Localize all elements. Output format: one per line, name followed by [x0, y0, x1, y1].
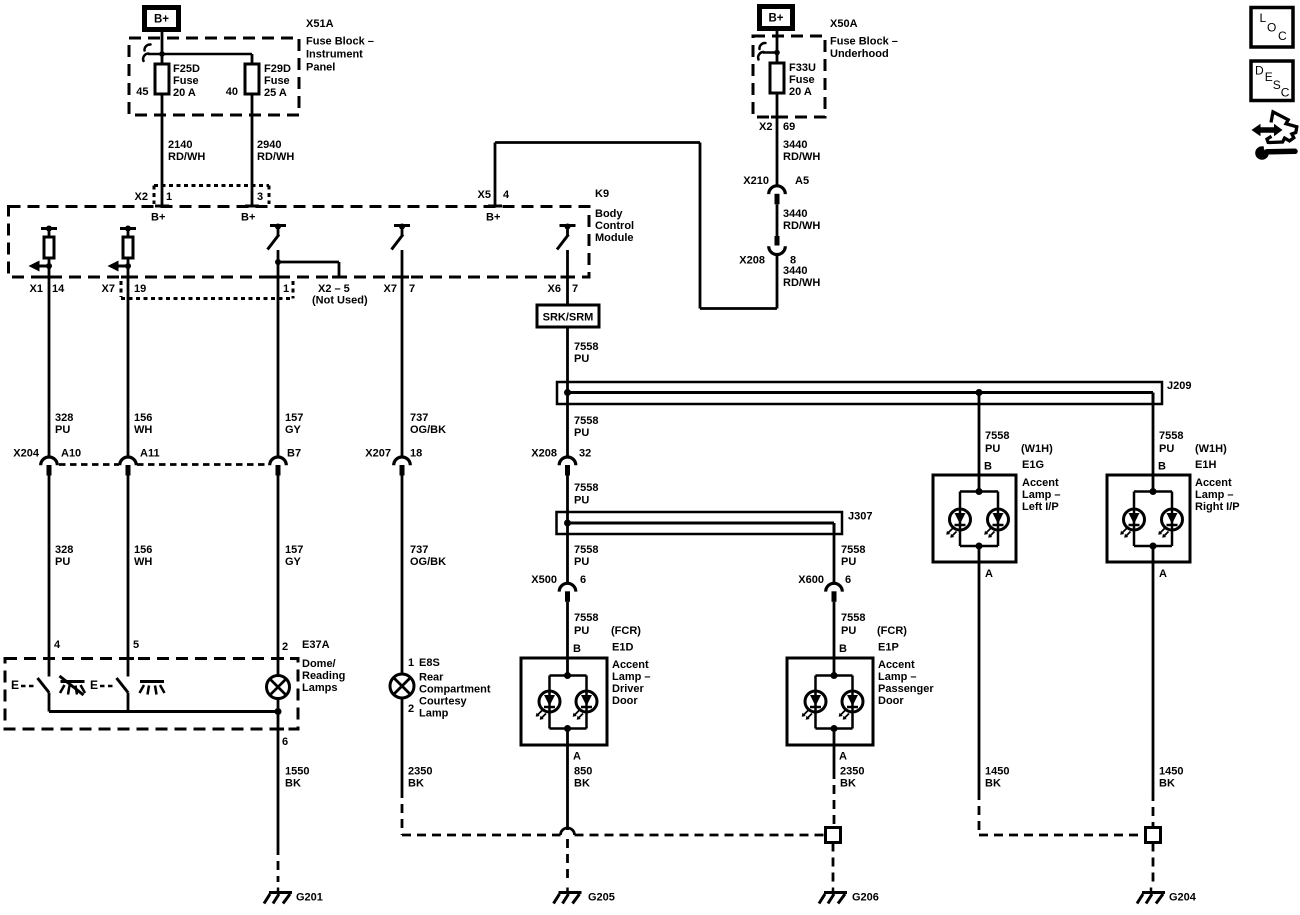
in-line connector X600 pin 6	[826, 583, 843, 591]
svg-text:1550: 1550	[285, 766, 309, 778]
wire 7558 PU from SRK/SRM to splice pack J209	[566, 327, 569, 393]
svg-text:B+: B+	[151, 212, 165, 224]
splice pack J209	[557, 382, 1162, 404]
svg-text:Reading: Reading	[302, 670, 345, 682]
svg-text:Lamp –: Lamp –	[1022, 489, 1061, 501]
svg-text:B: B	[1158, 461, 1166, 473]
connector X2 dotted box at BCM bottom, pins 19 and 1	[120, 281, 123, 297]
wire 1450 BK from E1G pin A	[978, 562, 981, 791]
svg-text:Fuse: Fuse	[173, 75, 199, 87]
svg-text:7: 7	[409, 283, 415, 295]
bus curl symbol inside X51A	[144, 44, 150, 50]
LED 2 of E1D	[576, 691, 597, 712]
svg-text:B: B	[573, 643, 581, 655]
E1G internal LED parallel loop	[976, 488, 983, 495]
splice pack J307	[557, 512, 843, 534]
LED 1 of E1G	[950, 509, 971, 530]
svg-text:B+: B+	[241, 212, 255, 224]
E1H internal LED parallel loop	[1150, 488, 1157, 495]
B+ power symbol (right)	[760, 7, 793, 29]
wire from E1H loop to pin A	[1152, 546, 1155, 562]
svg-text:Instrument: Instrument	[306, 48, 363, 60]
svg-text:737: 737	[410, 412, 428, 424]
svg-text:2: 2	[408, 703, 414, 715]
svg-text:A11: A11	[140, 448, 160, 460]
svg-text:7558: 7558	[841, 544, 865, 556]
svg-text:E: E	[11, 678, 19, 692]
in-line connector X208 pin 8	[775, 236, 780, 246]
LED 2 of E1H	[1162, 509, 1183, 530]
pin tick BCM pin 1 (X2)	[155, 205, 169, 208]
fuse F29D 25 A	[251, 64, 254, 94]
svg-text:Passenger: Passenger	[878, 683, 934, 695]
svg-text:BK: BK	[1159, 778, 1175, 790]
svg-text:PU: PU	[1159, 443, 1174, 455]
pin tick E37A pin 2	[272, 657, 284, 660]
wire corner run to BCM X5 pin 4	[700, 307, 777, 310]
ground G205	[566, 888, 569, 893]
wire 737 OG/BK from BCM X7-7 to X207 18	[401, 277, 404, 456]
wire 7558 PU from J307 to X500 pin 6	[566, 523, 569, 583]
svg-text:(W1H): (W1H)	[1195, 443, 1227, 455]
dashed 2350 BK down and right to ground splice	[401, 789, 404, 835]
fuse F33U 20 A	[776, 64, 779, 94]
svg-text:E: E	[1265, 70, 1273, 84]
svg-text:(FCR): (FCR)	[877, 625, 907, 637]
svg-text:157: 157	[285, 544, 303, 556]
svg-text:A: A	[985, 568, 993, 580]
svg-text:7: 7	[572, 283, 578, 295]
svg-text:PU: PU	[574, 556, 589, 568]
svg-text:328: 328	[55, 412, 73, 424]
wire 2940 RD/WH from F29D to BCM pin 3	[251, 94, 254, 206]
svg-text:X2: X2	[759, 121, 772, 133]
svg-text:1: 1	[166, 191, 172, 203]
SRK/SRM box	[566, 277, 569, 305]
svg-text:20 A: 20 A	[789, 86, 812, 98]
svg-text:F25D: F25D	[173, 63, 200, 75]
svg-text:B: B	[984, 461, 992, 473]
svg-text:B+: B+	[768, 13, 783, 25]
svg-text:7558: 7558	[574, 612, 598, 624]
svg-text:J209: J209	[1167, 380, 1191, 392]
svg-text:B7: B7	[287, 448, 301, 460]
svg-text:Dome/: Dome/	[302, 658, 336, 670]
ground splice square for G204	[1146, 828, 1161, 843]
svg-text:5: 5	[133, 639, 139, 651]
svg-text:G206: G206	[852, 892, 879, 904]
svg-text:S: S	[1273, 78, 1281, 92]
in-line connector X210 pin A5	[769, 186, 786, 194]
svg-text:157: 157	[285, 412, 303, 424]
svg-text:3440: 3440	[783, 265, 807, 277]
pin tick BCM pin 3 (X2)	[245, 205, 259, 208]
svg-text:F29D: F29D	[264, 63, 291, 75]
wire 7558 PU from J307 to X600 pin 6	[833, 534, 836, 583]
svg-text:2350: 2350	[840, 766, 864, 778]
dashed gang line of connector X204	[59, 463, 119, 466]
svg-text:32: 32	[579, 448, 591, 460]
svg-text:7558: 7558	[841, 612, 865, 624]
wire B+ feed from X50A into BCM pin X5-4	[494, 143, 497, 207]
wire 1550 BK from E37A pin 6	[277, 729, 280, 846]
wire 1450 BK from E1H pin A	[1152, 562, 1155, 792]
svg-text:PU: PU	[841, 556, 856, 568]
svg-text:X207: X207	[365, 448, 391, 460]
svg-text:G204: G204	[1169, 892, 1197, 904]
wire from driver to BCM pin X1 14	[48, 266, 51, 277]
svg-text:3440: 3440	[783, 208, 807, 220]
svg-text:Lamp –: Lamp –	[1195, 489, 1234, 501]
accent lamp E1H right I/P box	[1107, 475, 1190, 562]
svg-text:BK: BK	[574, 778, 590, 790]
svg-text:Door: Door	[878, 695, 904, 707]
fuse block X51A dashed box	[129, 38, 299, 115]
svg-text:69: 69	[783, 121, 795, 133]
in-line connector X208 pin 32	[559, 457, 576, 465]
dashed wire from splice square to ground G206	[832, 843, 835, 883]
E1P internal LED parallel loop	[831, 672, 838, 679]
dashed 1550 BK to ground G201	[277, 846, 280, 882]
bus bar from curl to fuse wire	[763, 51, 777, 54]
svg-text:Body: Body	[595, 208, 623, 220]
svg-text:X2 – 5: X2 – 5	[318, 283, 350, 295]
svg-text:2: 2	[282, 641, 288, 653]
svg-text:RD/WH: RD/WH	[168, 151, 205, 163]
svg-text:E1H: E1H	[1195, 459, 1216, 471]
wire from E1G loop to pin A	[978, 546, 981, 562]
svg-text:BK: BK	[840, 778, 856, 790]
svg-text:Fuse Block –: Fuse Block –	[306, 35, 374, 47]
svg-text:737: 737	[410, 544, 428, 556]
wire from bus bar out E37A pin 6	[277, 712, 280, 730]
dashed 1450 BK to ground splice square	[1152, 792, 1155, 828]
svg-text:PU: PU	[574, 353, 589, 365]
svg-text:A10: A10	[61, 448, 81, 460]
svg-text:Courtesy: Courtesy	[419, 696, 468, 708]
svg-text:X2: X2	[135, 191, 148, 203]
svg-text:X7: X7	[102, 283, 115, 295]
wire 7558 PU from J209 to connector X208 pin 32	[566, 393, 569, 457]
fuse block X50A dashed box	[753, 36, 825, 117]
illumination sunburst symbol 1	[61, 680, 85, 683]
double-headed arrow of repair icon	[1252, 124, 1283, 137]
svg-text:PU: PU	[574, 495, 589, 507]
wire from switch to BCM pin X7 7	[401, 250, 404, 277]
svg-text:(FCR): (FCR)	[611, 625, 641, 637]
svg-text:C: C	[1281, 85, 1290, 99]
svg-text:BK: BK	[285, 778, 301, 790]
wire 157 GY from X204 B7 to dome lamp pin 2	[277, 476, 280, 676]
door switch 1 in E37A	[38, 678, 50, 693]
svg-text:L: L	[1260, 11, 1267, 25]
wire from B+ into fuse block X50A	[776, 28, 779, 64]
svg-text:G205: G205	[588, 892, 615, 904]
in-line connector X204 pin A11	[120, 457, 137, 465]
svg-text:1: 1	[283, 283, 289, 295]
svg-text:7558: 7558	[985, 430, 1009, 442]
wire 156 WH from BCM X7-19 to X204 A11	[127, 277, 130, 456]
svg-text:K9: K9	[595, 188, 609, 200]
svg-text:X51A: X51A	[306, 18, 334, 30]
BCM output driver for pin X7-19	[120, 227, 136, 230]
svg-text:A5: A5	[795, 175, 809, 187]
wire 7558 PU (W1H) from J209 to E1H pin B	[1152, 404, 1155, 492]
wire from F33U to connector X2 pin 69	[776, 93, 779, 185]
wire 2350 BK from E1P pin A	[833, 745, 836, 770]
svg-text:Lamp –: Lamp –	[612, 671, 651, 683]
svg-text:Accent: Accent	[878, 659, 915, 671]
svg-text:4: 4	[503, 189, 510, 201]
svg-text:X5: X5	[478, 189, 491, 201]
svg-text:18: 18	[410, 448, 422, 460]
svg-text:2350: 2350	[408, 766, 432, 778]
svg-text:7558: 7558	[574, 544, 598, 556]
svg-text:Compartment: Compartment	[419, 684, 491, 696]
dome lamp bulb in E37A	[267, 676, 290, 699]
svg-text:X208: X208	[531, 448, 557, 460]
svg-text:G201: G201	[296, 892, 323, 904]
svg-text:Panel: Panel	[306, 61, 335, 73]
ground splice square for G206	[826, 828, 841, 843]
svg-text:Lamps: Lamps	[302, 682, 337, 694]
svg-text:Right I/P: Right I/P	[1195, 501, 1240, 513]
svg-text:Accent: Accent	[1195, 477, 1232, 489]
svg-text:7558: 7558	[574, 482, 598, 494]
svg-text:Lamp –: Lamp –	[878, 671, 917, 683]
wire 157 GY from BCM pin 1 to X204 B7	[277, 277, 280, 456]
accent lamp E1P passenger door box	[787, 658, 873, 745]
svg-text:Accent: Accent	[612, 659, 649, 671]
svg-text:Fuse Block –: Fuse Block –	[830, 35, 898, 47]
svg-text:850: 850	[574, 766, 592, 778]
wire 328 PU from X204 A10 to dome lamp switch pin 4	[48, 476, 51, 677]
svg-text:PU: PU	[985, 443, 1000, 455]
dome/reading lamps E37A dashed box	[5, 659, 298, 730]
svg-text:X1: X1	[30, 283, 43, 295]
body control module K9 dashed box	[9, 207, 590, 278]
dashed 1450 BK down and right to ground splice square	[978, 791, 981, 835]
pin tick E37A pin 4	[43, 657, 55, 660]
wire from E1D loop to pin A	[566, 729, 569, 746]
svg-text:GY: GY	[285, 424, 302, 436]
svg-text:6: 6	[845, 574, 851, 586]
svg-text:Accent: Accent	[1022, 477, 1059, 489]
hop of dashed harness over 850 BK wire	[561, 828, 575, 835]
svg-text:E8S: E8S	[419, 657, 440, 669]
BCM internal switch at x=278	[270, 224, 286, 227]
LED 1 of E1P	[805, 691, 826, 712]
svg-text:X208: X208	[739, 255, 765, 267]
svg-text:D: D	[1255, 64, 1264, 78]
svg-text:Door: Door	[612, 695, 638, 707]
svg-text:X6: X6	[548, 283, 561, 295]
svg-text:156: 156	[134, 412, 152, 424]
svg-text:X204: X204	[13, 448, 40, 460]
wire 737 OG/BK from X207 to E8S lamp pin 1	[401, 476, 404, 675]
wire 7558 PU from X600 to E1P pin B	[833, 602, 836, 676]
wire from switch to BCM pin 1 (X2)	[277, 250, 280, 277]
svg-text:B+: B+	[154, 14, 169, 26]
svg-text:3: 3	[257, 191, 263, 203]
LED 1 of E1H	[1124, 509, 1145, 530]
svg-text:PU: PU	[841, 625, 856, 637]
LED 2 of E1P	[842, 691, 863, 712]
wire from B+ into fuse block X51A	[161, 30, 164, 64]
wire 7558 PU from X500 to E1D pin B	[566, 602, 569, 676]
svg-text:E37A: E37A	[302, 639, 330, 651]
LED 2 of E1G	[988, 509, 1009, 530]
svg-text:SRK/SRM: SRK/SRM	[543, 312, 594, 324]
svg-text:Rear: Rear	[419, 672, 444, 684]
svg-text:7558: 7558	[574, 341, 598, 353]
part outline of repair icon	[1267, 112, 1297, 143]
connector X2 dotted box at BCM top, pins 1 and 3	[154, 184, 269, 187]
svg-text:PU: PU	[55, 424, 70, 436]
svg-text:B+: B+	[486, 212, 500, 224]
wire 3440 RD/WH between X210 and X208	[776, 204, 779, 236]
in-line connector X500 pin 6	[559, 583, 576, 591]
bus curl symbol inside X50A	[759, 43, 765, 49]
svg-text:RD/WH: RD/WH	[783, 277, 820, 289]
ground G204	[1150, 888, 1153, 893]
wire from switch to BCM pin X6 7	[566, 250, 569, 277]
svg-text:(Not Used): (Not Used)	[312, 295, 368, 307]
dashed wire from hop to ground G205	[566, 839, 569, 882]
svg-text:4: 4	[54, 639, 61, 651]
svg-text:O: O	[1267, 21, 1276, 35]
E37A internal ground bus bar	[49, 710, 278, 713]
dashed wire 2350 BK to ground splice square	[833, 770, 836, 828]
svg-text:156: 156	[134, 544, 152, 556]
svg-text:45: 45	[136, 86, 148, 98]
svg-text:20 A: 20 A	[173, 87, 196, 99]
wire from dome lamp to bus bar	[277, 699, 280, 712]
accent lamp E1D driver door box	[521, 658, 607, 745]
svg-text:X7: X7	[384, 283, 397, 295]
pin tick E37A pin 5	[122, 657, 134, 660]
svg-text:Left I/P: Left I/P	[1022, 501, 1059, 513]
svg-text:Driver: Driver	[612, 683, 645, 695]
BCM output driver for pin X1-14	[41, 227, 57, 230]
stub wire to not-used pin X2-5	[278, 261, 339, 264]
svg-text:E1D: E1D	[612, 642, 633, 654]
svg-text:Lamp: Lamp	[419, 708, 449, 720]
wire 2140 RD/WH from F25D to BCM pin 1	[161, 94, 164, 206]
accent lamp E1G left I/P box	[933, 475, 1016, 562]
svg-text:25 A: 25 A	[264, 87, 287, 99]
ground G206	[832, 888, 835, 893]
svg-text:E1P: E1P	[878, 642, 899, 654]
LOC legend box	[1251, 8, 1293, 48]
svg-text:1450: 1450	[985, 766, 1009, 778]
svg-text:RD/WH: RD/WH	[783, 151, 820, 163]
svg-text:F33U: F33U	[789, 62, 816, 74]
svg-text:7558: 7558	[1159, 430, 1183, 442]
svg-text:E: E	[90, 678, 98, 692]
svg-text:2940: 2940	[257, 139, 281, 151]
wire 7558 PU from X208-32 to splice pack J307	[566, 476, 569, 524]
LED 1 of E1D	[539, 691, 560, 712]
svg-text:3440: 3440	[783, 139, 807, 151]
E1D internal LED parallel loop	[564, 672, 571, 679]
svg-text:J307: J307	[848, 511, 872, 523]
svg-text:RD/WH: RD/WH	[257, 151, 294, 163]
svg-text:GY: GY	[285, 556, 302, 568]
wire 156 WH from X204 A11 to dome lamp switch pin 5	[127, 476, 130, 677]
svg-text:14: 14	[52, 283, 65, 295]
wire 850 BK from E1D pin A to ground splice	[566, 745, 569, 830]
svg-text:OG/BK: OG/BK	[410, 424, 446, 436]
svg-text:PU: PU	[574, 427, 589, 439]
wire 3440 RD/WH from X208 to BCM X5-4	[776, 256, 779, 309]
svg-text:6: 6	[282, 736, 288, 748]
rear compartment courtesy lamp E8S	[390, 674, 414, 698]
svg-text:PU: PU	[574, 625, 589, 637]
svg-text:RD/WH: RD/WH	[783, 220, 820, 232]
dashed wire from splice square to ground G204	[1152, 843, 1155, 883]
svg-text:PU: PU	[55, 556, 70, 568]
in-line connector X204 pin A10	[41, 457, 58, 465]
wire 328 PU from BCM X1-14 to X204 A10	[48, 277, 51, 456]
svg-text:Underhood: Underhood	[830, 48, 889, 60]
wire from E1P loop to pin A	[833, 729, 836, 746]
B+ power symbol (left)	[145, 8, 179, 30]
svg-text:2140: 2140	[168, 139, 192, 151]
svg-text:WH: WH	[134, 556, 152, 568]
wire from driver to BCM pin X7 19	[127, 266, 130, 277]
ground G201	[277, 888, 280, 893]
wire 2350 BK from E8S pin 2	[401, 698, 404, 789]
svg-text:X600: X600	[798, 574, 824, 586]
in-line connector X207 pin 18	[394, 457, 411, 465]
svg-text:7558: 7558	[574, 415, 598, 427]
svg-text:1450: 1450	[1159, 766, 1183, 778]
svg-text:A: A	[839, 751, 847, 763]
in-line connector X204 pin B7	[270, 457, 287, 465]
svg-text:6: 6	[580, 574, 586, 586]
door switch 2 in E37A	[117, 678, 129, 693]
svg-text:OG/BK: OG/BK	[410, 556, 446, 568]
svg-text:Fuse: Fuse	[264, 75, 290, 87]
svg-text:BK: BK	[985, 778, 1001, 790]
svg-text:E1G: E1G	[1022, 459, 1044, 471]
BCM internal switch at x=567.5	[560, 224, 576, 227]
svg-text:A: A	[1159, 568, 1167, 580]
wire bus bar down to fuse F29D	[251, 54, 254, 64]
svg-text:WH: WH	[134, 424, 152, 436]
BCM internal switch at x=402	[394, 224, 410, 227]
svg-text:Module: Module	[595, 232, 634, 244]
svg-text:X500: X500	[531, 574, 557, 586]
svg-text:Control: Control	[595, 220, 634, 232]
svg-text:328: 328	[55, 544, 73, 556]
illumination sunburst symbol 2	[140, 680, 164, 683]
wire 7558 PU (W1H) from J209 to E1G pin B	[978, 393, 981, 492]
svg-text:(W1H): (W1H)	[1021, 443, 1053, 455]
svg-text:1: 1	[408, 657, 414, 669]
svg-text:B: B	[839, 643, 847, 655]
DESC legend box	[1251, 61, 1293, 101]
svg-text:A: A	[573, 751, 581, 763]
svg-text:Fuse: Fuse	[789, 74, 815, 86]
svg-text:19: 19	[134, 283, 146, 295]
svg-text:X50A: X50A	[830, 18, 858, 30]
wrench of repair icon	[1255, 146, 1269, 160]
pin tick BCM X5 pin 4	[488, 205, 502, 208]
bus bar from curl to fuse F29D	[148, 53, 252, 56]
svg-text:40: 40	[226, 86, 238, 98]
